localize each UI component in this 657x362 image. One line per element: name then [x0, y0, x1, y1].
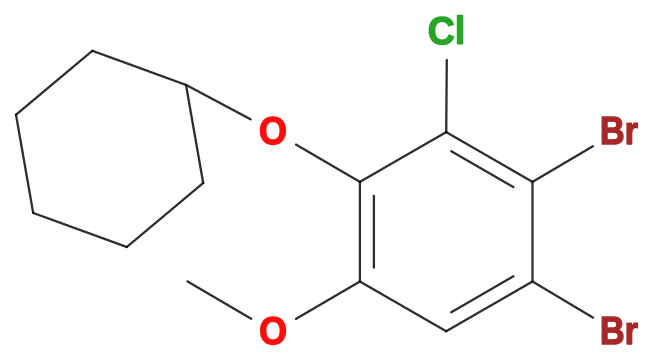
- bond benzene C5 to ether O bottom: [296, 282, 360, 319]
- atom label Br top: [600, 109, 638, 153]
- bond benzene C6-C1 (top-left): [360, 132, 446, 182]
- double bond inner line C5=C6: [373, 196, 375, 268]
- bond cyclohexane C6'-C1': [186, 85, 203, 183]
- bond benzene C5-C6 (left vertical): [359, 182, 361, 282]
- bond benzene C2 to Br top: [533, 146, 593, 182]
- atom label Br bottom: [600, 309, 638, 353]
- bond benzene C1 to Cl: [445, 60, 448, 132]
- svg-text:O: O: [259, 109, 287, 153]
- bond cyclohexane C5'-C6': [127, 183, 203, 247]
- bond cyclohexane C3'-C4': [16, 115, 33, 213]
- bond benzene C2-C3 (right vertical): [531, 182, 533, 282]
- double bond inner line C1=C2: [451, 151, 513, 187]
- bond cyclohexane C2'-C3': [16, 51, 92, 115]
- svg-text:O: O: [259, 309, 287, 353]
- double bond inner line C3=C4: [451, 276, 513, 312]
- bond benzene C4-C5 (bottom-left): [360, 282, 446, 332]
- cyclohexane ring: [16, 51, 203, 247]
- bond benzene C3-C4 (bottom-right): [446, 282, 532, 332]
- atom label Cl: [428, 9, 465, 53]
- bond cyclohexane C1'-C2': [92, 51, 186, 85]
- svg-text:Cl: Cl: [428, 9, 465, 53]
- svg-text:Br: Br: [600, 109, 638, 153]
- bond benzene C3 to Br bottom: [533, 282, 594, 318]
- bond benzene C6 to ether O top: [296, 145, 360, 182]
- bond cyclohexane C1' to ether O top: [186, 85, 251, 119]
- bond methyl CH3 to ether O bottom: [187, 281, 251, 318]
- atom label O top: [259, 109, 287, 153]
- benzene ring: [360, 132, 533, 331]
- atom label O bottom: [259, 309, 287, 353]
- bond benzene C1-C2 (top to top-right): [446, 132, 532, 182]
- bond cyclohexane C4'-C5': [33, 213, 127, 247]
- svg-text:Br: Br: [600, 309, 638, 353]
